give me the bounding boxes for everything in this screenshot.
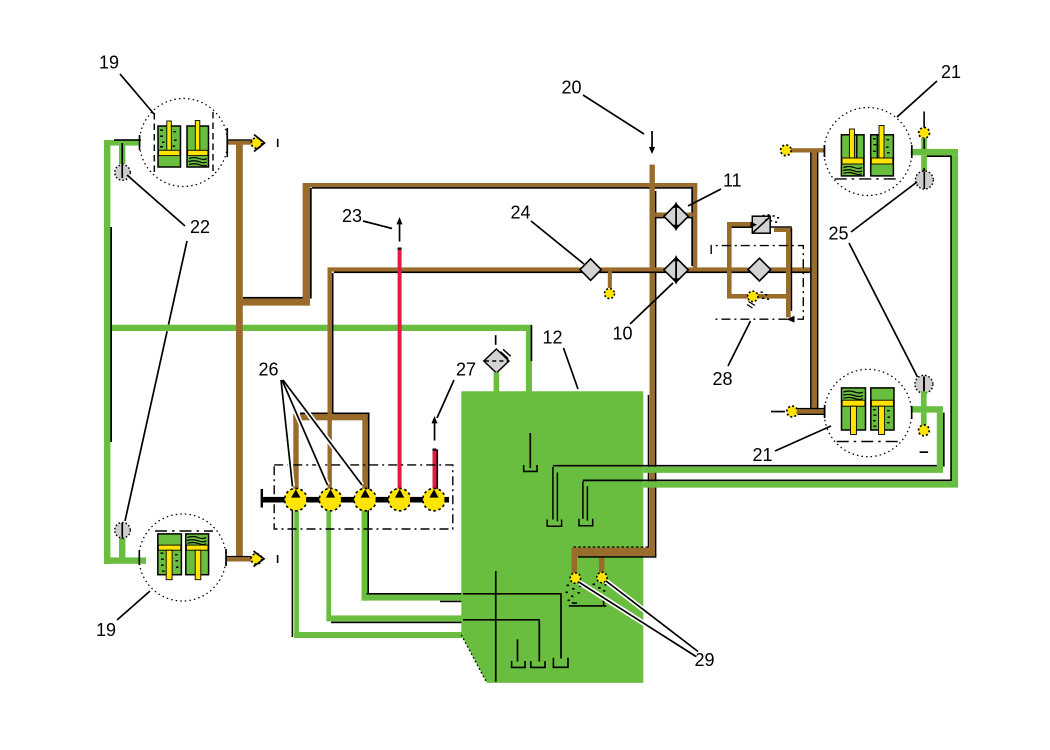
port bottom-left yellow circle bbox=[251, 554, 262, 565]
port 29-2 yellow circle bbox=[597, 572, 607, 582]
wire companion patch over green junction bbox=[110, 324, 112, 332]
leader 27 bbox=[437, 380, 454, 418]
port bottom-right tick bbox=[771, 411, 785, 413]
brown right vertical line bbox=[812, 153, 817, 410]
wire black dotted top edge of bottom elbow bbox=[574, 546, 651, 548]
sensor 25 top gray circle bbox=[915, 171, 933, 189]
wire black companion left of green line 1 bbox=[292, 504, 294, 637]
port top-right yellow circle bbox=[781, 145, 792, 156]
leader 22 to bottom sensor bbox=[125, 241, 187, 521]
filter 27 tick above bbox=[495, 335, 497, 345]
wire black above green line 3 bbox=[367, 593, 464, 595]
brown manifold U right vertical bbox=[362, 414, 368, 491]
bubble TR baseline bbox=[835, 178, 901, 180]
relief valve 28 inlet arrow bbox=[751, 222, 758, 228]
outer pair black line to right elbow bbox=[583, 156, 951, 480]
green line 3 vertical from port 3 bbox=[362, 506, 368, 601]
valve 28 loop bottom horizontal bbox=[727, 294, 791, 299]
leader 25 to bottom sensor bbox=[849, 243, 918, 377]
wire black right of loop vertical bbox=[791, 228, 793, 311]
green stub sensor to H_BR bbox=[921, 391, 927, 406]
svg-text:29: 29 bbox=[695, 650, 715, 670]
wire black companion under H1 bbox=[312, 187, 695, 189]
valve 11 diamond bbox=[664, 204, 688, 228]
wire black outline right of manifold U bbox=[368, 413, 370, 491]
sensor 25 bottom tick bbox=[923, 376, 925, 391]
green line 2 vertical from port 2 bbox=[326, 506, 331, 621]
brown main center vertical line bbox=[650, 165, 655, 556]
leader 25 to top sensor bbox=[851, 182, 917, 232]
port 26-4 triangle bbox=[395, 489, 404, 497]
relief valve 28 dots bbox=[763, 214, 780, 223]
svg-text:28: 28 bbox=[713, 369, 733, 389]
filter 27 chevrons bbox=[501, 349, 511, 358]
block line from green3 to cup bbox=[463, 593, 562, 595]
red line 27 short bbox=[433, 451, 437, 490]
inner pair green elbow bbox=[643, 413, 940, 473]
spray dots port 29-2 bbox=[592, 584, 607, 596]
bubble 21 top-right dash circle bbox=[824, 108, 912, 196]
brown manifold U left vertical bbox=[293, 414, 298, 491]
green line into top-left bubble bbox=[104, 140, 141, 146]
wire black under loop top bbox=[732, 227, 753, 229]
wire black companion right of left green vertical bbox=[110, 227, 112, 442]
leader 24 bbox=[531, 221, 584, 264]
port top-right brown stub bbox=[791, 148, 825, 152]
leader 12 bbox=[564, 348, 579, 389]
wire black right of right vertical bbox=[817, 153, 819, 410]
port BR yellow circle bbox=[919, 425, 930, 436]
bubble 19 bottom-left dash circle bbox=[139, 514, 226, 601]
exhaust marks near port 28 bbox=[747, 302, 755, 309]
port 26-2 triangle bbox=[326, 489, 335, 497]
sensor 22 top-left gray circle bbox=[115, 165, 131, 181]
green drop to block top from mid horizontal bbox=[526, 325, 532, 391]
brown top horizontal H1 bbox=[303, 183, 698, 187]
port 26-3 triangle bbox=[361, 489, 370, 497]
bubble BR left cylinder bbox=[842, 388, 866, 430]
wire black companion right of red 27 bbox=[437, 450, 439, 490]
svg-text:22: 22 bbox=[190, 217, 210, 237]
bubble BL left cylinder bbox=[158, 534, 182, 575]
wire black companion above elbow bbox=[243, 297, 310, 299]
manifold rail thick black bbox=[262, 497, 450, 503]
port top-left brown stub bbox=[228, 141, 253, 145]
port bottom-right yellow circle bbox=[787, 406, 798, 417]
leader 11 bbox=[688, 189, 721, 206]
green line 2 horizontal to block bbox=[326, 615, 463, 621]
green line 3 horizontal to block bbox=[362, 595, 464, 601]
port 26-4 yellow circle bbox=[388, 488, 410, 510]
svg-text:10: 10 bbox=[613, 324, 633, 344]
green line 1 vertical from port 1 bbox=[294, 506, 299, 638]
valve 11 stub bbox=[655, 213, 693, 217]
block cup B3 bbox=[517, 639, 519, 661]
port top-left black top line bbox=[228, 139, 252, 141]
leader 19 top bbox=[120, 74, 154, 114]
svg-text:21: 21 bbox=[753, 445, 773, 465]
wire black top line over green at top-left bubble entry bbox=[114, 139, 141, 141]
svg-text:11: 11 bbox=[723, 171, 742, 191]
leader 28 bbox=[728, 321, 751, 366]
green stub down to yellow port BR bbox=[921, 413, 927, 426]
port 28 yellow circle bbox=[748, 291, 758, 301]
valve 10 arrow bbox=[675, 262, 677, 279]
arrow 27 bbox=[434, 423, 436, 441]
wire black companion right of riser bbox=[310, 188, 312, 299]
wire black companion left of H1 elbow bbox=[691, 189, 693, 267]
port 29-1 yellow circle bbox=[570, 573, 580, 583]
bubble 21 bottom-right dash circle bbox=[824, 369, 911, 456]
wire black below stub bbox=[798, 414, 825, 415]
spray dots port 29-1 bbox=[566, 585, 582, 602]
bubble TR left cylinder bbox=[841, 135, 864, 176]
valve 28 loop right vertical bbox=[786, 228, 791, 318]
svg-text:20: 20 bbox=[562, 78, 582, 98]
valve 24 diamond bbox=[580, 259, 601, 281]
leader 19 bottom bbox=[117, 591, 150, 620]
arrow 20 into line bbox=[651, 131, 653, 148]
wire black companion right of green drop bbox=[531, 325, 533, 361]
green stub filter to block bbox=[494, 372, 500, 391]
port 26-3 yellow circle bbox=[354, 488, 376, 510]
relief valve 28 diagonal bbox=[753, 217, 769, 232]
block line from green2 to cup bbox=[463, 619, 540, 621]
green mid horizontal line bbox=[104, 325, 532, 331]
green horizontal top-right bbox=[911, 149, 958, 155]
brown H2 left elbow down to port 2 bbox=[328, 267, 332, 492]
dash-dot box assembly 28 bbox=[711, 246, 803, 320]
wire black outline below bottom elbow bbox=[578, 556, 655, 558]
block shallow bracket near ports 29 bbox=[569, 597, 607, 606]
green cross top-right: yellow port above bbox=[923, 112, 925, 128]
bubble BL right cylinder bbox=[186, 534, 209, 575]
brown H1 right elbow down bbox=[693, 183, 697, 270]
svg-text:19: 19 bbox=[99, 52, 119, 72]
port bottom-left tick I bbox=[277, 555, 279, 563]
svg-text:23: 23 bbox=[342, 206, 362, 226]
svg-text:21: 21 bbox=[941, 62, 961, 82]
bubble TR right cylinder bbox=[871, 135, 894, 176]
dashed box assembly 26 bbox=[274, 465, 453, 529]
port 26-2 yellow circle bbox=[319, 488, 341, 510]
filter 27 diamond bbox=[484, 349, 509, 373]
green horizontal bottom-right bbox=[911, 406, 943, 412]
block bracket B2 from outer pair (double walled slot) bbox=[583, 482, 588, 521]
wire black under green line 2 bbox=[331, 622, 463, 624]
sensor tick bottom-left bbox=[121, 523, 123, 539]
port top-left tick I bbox=[277, 139, 279, 147]
valve 28 diamond bbox=[748, 258, 771, 281]
leaders 29 white cased bbox=[580, 581, 699, 657]
manifold rail left cap bbox=[261, 489, 263, 508]
brown elbow horizontal from left vertical bbox=[236, 299, 308, 306]
leader 23 bbox=[363, 221, 392, 229]
wire black companion right of green line 3 bbox=[367, 509, 369, 593]
leader 20 bbox=[583, 95, 644, 134]
brown manifold U top bbox=[293, 414, 368, 420]
brown under black to right loop bbox=[774, 228, 792, 232]
wire black above stub bbox=[798, 408, 825, 409]
arrow 23 bbox=[399, 225, 401, 242]
port bottom-right brown stub bbox=[797, 409, 824, 413]
brown left vertical line bbox=[236, 141, 243, 558]
bubble BL topline bbox=[155, 530, 213, 532]
inner pair black line to right elbow bbox=[553, 413, 944, 466]
green stub port to H_TR bbox=[921, 138, 927, 150]
wire black companion under H2 bbox=[334, 272, 810, 274]
port 24 yellow circle bbox=[605, 289, 615, 299]
port bottom-left chevron bbox=[254, 551, 265, 567]
brown H2 horizontal bbox=[328, 267, 813, 271]
sensor 22 bottom-left gray circle bbox=[115, 522, 131, 538]
leader 21 top bbox=[897, 81, 937, 117]
port 26-1 triangle bbox=[291, 489, 300, 497]
green stub down to sensor 25 top bbox=[921, 155, 927, 172]
port bottom-left brown stub bbox=[226, 557, 251, 561]
wire black from square to right loop bbox=[770, 226, 792, 228]
bubble TL inner dashed verticals bbox=[154, 112, 213, 176]
wire black below green line 3 bbox=[440, 601, 463, 603]
red line 23 bbox=[398, 250, 402, 490]
green tank block 12 bbox=[461, 391, 643, 683]
port bottom-left black top line bbox=[226, 556, 251, 557]
port 26-5 triangle bbox=[429, 489, 438, 497]
svg-text:25: 25 bbox=[829, 224, 849, 244]
valve 11 arrow bbox=[675, 208, 677, 225]
wire black under valve 11 stub bbox=[655, 217, 693, 219]
leader 21 bottom bbox=[775, 426, 831, 451]
svg-text:12: 12 bbox=[543, 328, 563, 348]
brown bottom elbow of center vertical bbox=[572, 548, 655, 557]
leaders 26 white cased bbox=[281, 380, 362, 487]
wire black left of right vertical bbox=[810, 153, 812, 410]
relief valve 28 square bbox=[752, 216, 770, 233]
valve 10 diamond bbox=[664, 258, 688, 282]
wire black companion right of center vertical bbox=[655, 191, 657, 558]
bubble TL right cylinder bbox=[187, 126, 209, 167]
red line 23 cap bbox=[398, 248, 402, 250]
green stub down to sensor 22 top-left bbox=[119, 146, 125, 165]
block bracket B1 from inner pair (double walled slot) bbox=[553, 467, 558, 521]
bubble 19 top-left dash circle bbox=[140, 99, 228, 187]
dotted edge on block notch bbox=[461, 635, 487, 683]
svg-text:24: 24 bbox=[511, 203, 531, 223]
filter 27 dashed line bbox=[485, 360, 509, 362]
sensor 25 bottom gray circle bbox=[915, 375, 933, 393]
port top-left yellow circle bbox=[251, 138, 262, 149]
valve 28 loop left vertical bbox=[727, 222, 732, 298]
valve 28 loop top horizontal bbox=[727, 222, 752, 227]
outer pair green elbow bbox=[643, 155, 955, 487]
leader 10 bbox=[630, 283, 673, 324]
brown riser to top horizontal bbox=[303, 185, 310, 306]
green supply line left vertical bbox=[104, 140, 110, 564]
block symbol fork top bbox=[529, 433, 531, 468]
port BR minus tick bbox=[920, 451, 929, 453]
bubble BR right cylinder bbox=[871, 388, 894, 430]
sensor 25 top tick bbox=[923, 168, 925, 188]
wire black outline above manifold U bbox=[300, 413, 328, 415]
green stub up to sensor 22 bottom-left bbox=[119, 538, 125, 558]
leader 22 to top sensor bbox=[127, 175, 185, 226]
svg-text:26: 26 bbox=[259, 360, 279, 380]
green bottom-left elbow to bubble 19 bbox=[104, 557, 146, 563]
port top-left chevron bbox=[254, 135, 265, 152]
arrow on box 28 bottom bbox=[787, 316, 795, 323]
port 24 brown stub down bbox=[608, 272, 612, 289]
red line 27 cap bbox=[433, 449, 437, 451]
bubble TL left cylinder bbox=[158, 126, 181, 167]
svg-text:27: 27 bbox=[456, 360, 476, 380]
bubble BR baseline bbox=[837, 441, 898, 443]
port 26-1 yellow circle bbox=[285, 488, 307, 510]
wire black companion right of H2 elbow bbox=[332, 273, 334, 414]
sensor tick top-left bbox=[121, 143, 123, 166]
svg-text:19: 19 bbox=[96, 620, 116, 640]
green line 1 horizontal to block bbox=[294, 632, 463, 638]
port 26-5 yellow circle bbox=[423, 488, 445, 510]
bubble edge dash caps bbox=[139, 128, 913, 566]
block long thin vertical bbox=[495, 571, 497, 682]
